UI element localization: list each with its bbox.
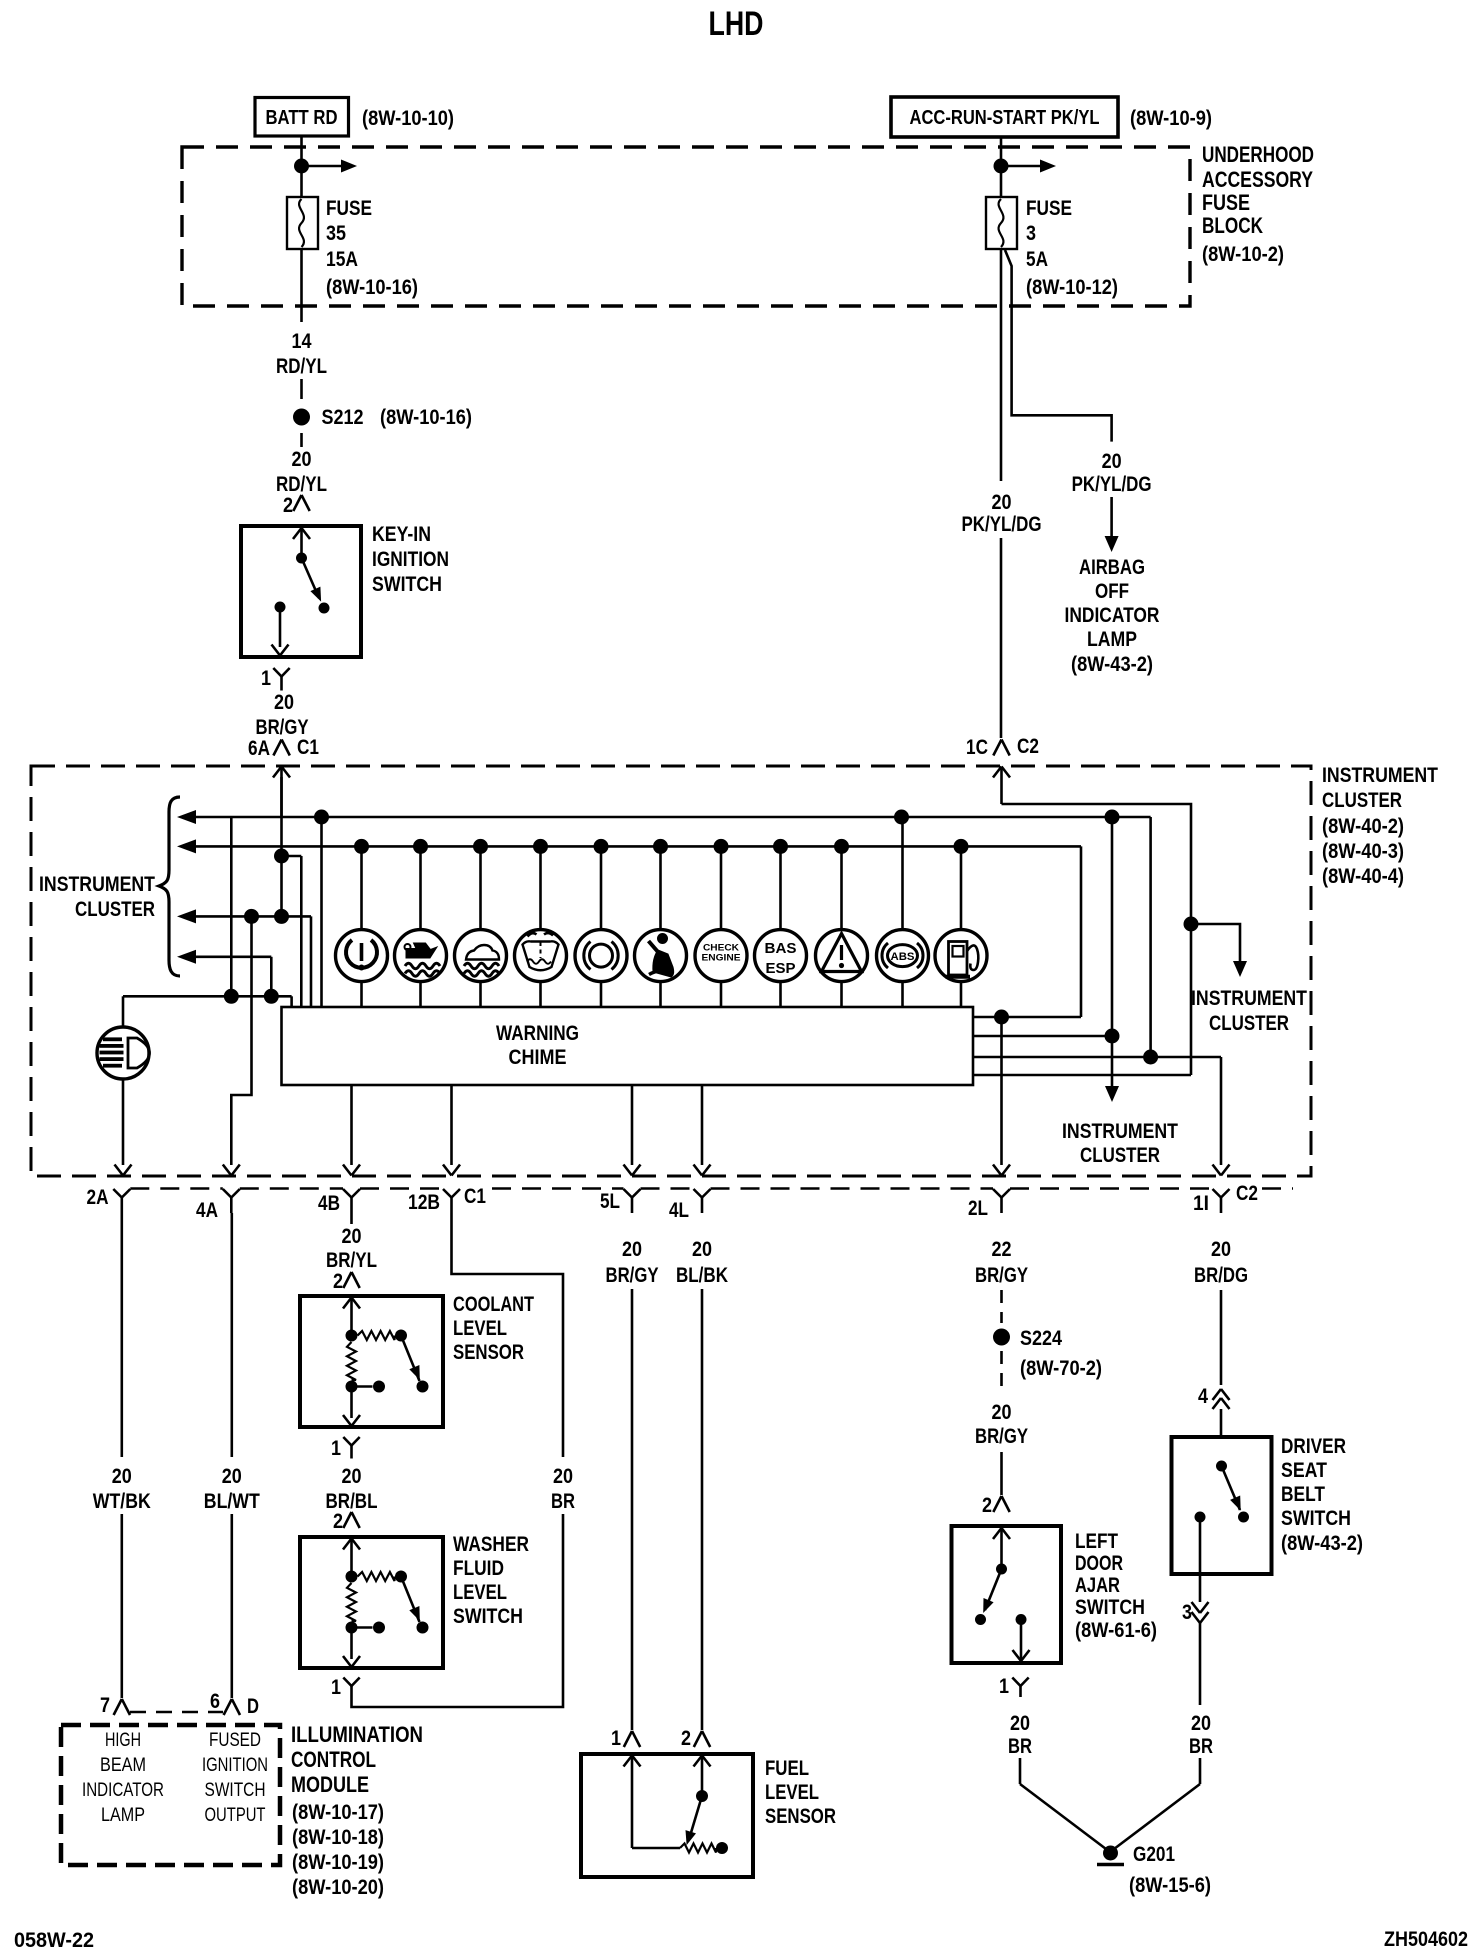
svg-text:WASHER: WASHER xyxy=(453,1533,529,1556)
svg-text:WARNING: WARNING xyxy=(496,1022,579,1045)
svg-text:BR/YL: BR/YL xyxy=(326,1249,377,1272)
svg-text:LAMP: LAMP xyxy=(101,1805,145,1826)
svg-text:(8W-70-2): (8W-70-2) xyxy=(1020,1357,1102,1380)
svg-text:1: 1 xyxy=(331,1676,341,1699)
svg-text:(8W-40-2): (8W-40-2) xyxy=(1322,815,1404,838)
svg-text:20: 20 xyxy=(692,1238,712,1261)
svg-text:LHD: LHD xyxy=(709,5,764,43)
svg-text:S224: S224 xyxy=(1020,1327,1062,1350)
svg-text:OUTPUT: OUTPUT xyxy=(205,1805,266,1826)
svg-text:20: 20 xyxy=(992,1401,1012,1424)
svg-text:20: 20 xyxy=(1191,1712,1211,1735)
svg-text:CLUSTER: CLUSTER xyxy=(1209,1012,1289,1035)
svg-text:1I: 1I xyxy=(1193,1192,1209,1215)
svg-text:FUSE: FUSE xyxy=(1202,190,1250,215)
svg-text:2L: 2L xyxy=(968,1197,988,1220)
svg-text:(8W-61-6): (8W-61-6) xyxy=(1075,1619,1157,1642)
svg-text:ILLUMINATION: ILLUMINATION xyxy=(291,1722,423,1747)
svg-text:C2: C2 xyxy=(1017,735,1039,758)
svg-text:COOLANT: COOLANT xyxy=(453,1293,534,1316)
svg-text:BL/WT: BL/WT xyxy=(204,1490,260,1513)
svg-text:(8W-10-2): (8W-10-2) xyxy=(1202,243,1284,266)
svg-text:ABS: ABS xyxy=(891,951,915,963)
svg-text:S212: S212 xyxy=(322,406,364,429)
svg-text:MODULE: MODULE xyxy=(291,1772,369,1797)
svg-text:LEVEL: LEVEL xyxy=(453,1581,507,1604)
svg-text:FUSE: FUSE xyxy=(326,197,372,220)
svg-text:BR: BR xyxy=(1189,1735,1213,1758)
svg-text:4B: 4B xyxy=(318,1192,340,1215)
svg-text:RD/YL: RD/YL xyxy=(276,473,327,496)
svg-text:CLUSTER: CLUSTER xyxy=(75,898,155,921)
svg-text:BEAM: BEAM xyxy=(100,1755,146,1776)
svg-text:6: 6 xyxy=(210,1690,220,1713)
svg-text:INSTRUMENT: INSTRUMENT xyxy=(39,873,155,896)
svg-text:20: 20 xyxy=(553,1465,573,1488)
svg-text:15A: 15A xyxy=(326,248,358,271)
svg-text:(8W-10-20): (8W-10-20) xyxy=(292,1876,384,1899)
svg-text:FLUID: FLUID xyxy=(453,1557,504,1580)
svg-text:LEVEL: LEVEL xyxy=(453,1317,507,1340)
svg-text:INSTRUMENT: INSTRUMENT xyxy=(1191,987,1307,1010)
svg-text:SWITCH: SWITCH xyxy=(1281,1507,1351,1530)
svg-text:LAMP: LAMP xyxy=(1087,628,1137,651)
svg-text:14: 14 xyxy=(292,330,312,353)
svg-text:AIRBAG: AIRBAG xyxy=(1079,556,1145,579)
svg-text:INSTRUMENT: INSTRUMENT xyxy=(1062,1120,1178,1143)
svg-text:INDICATOR: INDICATOR xyxy=(82,1780,164,1801)
svg-text:20: 20 xyxy=(1102,450,1122,473)
svg-text:(8W-40-4): (8W-40-4) xyxy=(1322,865,1404,888)
svg-text:BLOCK: BLOCK xyxy=(1202,213,1263,238)
svg-text:BR: BR xyxy=(1008,1735,1032,1758)
svg-text:FUSE: FUSE xyxy=(1026,197,1072,220)
svg-text:FUSED: FUSED xyxy=(209,1730,261,1751)
svg-text:7: 7 xyxy=(100,1694,110,1717)
svg-text:4L: 4L xyxy=(669,1199,689,1222)
svg-text:(8W-10-17): (8W-10-17) xyxy=(292,1801,384,1824)
svg-text:CHIME: CHIME xyxy=(509,1046,567,1069)
svg-text:SWITCH: SWITCH xyxy=(1075,1596,1145,1619)
svg-text:BR/GY: BR/GY xyxy=(975,1425,1028,1448)
svg-text:20: 20 xyxy=(992,491,1012,514)
svg-text:1: 1 xyxy=(331,1437,341,1460)
svg-text:G201: G201 xyxy=(1133,1843,1175,1866)
svg-text:1C: 1C xyxy=(966,736,988,759)
svg-text:4A: 4A xyxy=(196,1199,218,1222)
svg-text:(8W-10-12): (8W-10-12) xyxy=(1026,276,1118,299)
svg-text:6A: 6A xyxy=(248,737,270,760)
svg-text:ZH504602: ZH504602 xyxy=(1384,1928,1468,1951)
svg-text:(8W-43-2): (8W-43-2) xyxy=(1071,653,1153,676)
svg-text:INSTRUMENT: INSTRUMENT xyxy=(1322,764,1438,787)
svg-text:SEAT: SEAT xyxy=(1281,1459,1327,1482)
svg-text:IGNITION: IGNITION xyxy=(372,548,449,571)
svg-text:SWITCH: SWITCH xyxy=(205,1780,266,1801)
svg-text:ENGINE: ENGINE xyxy=(702,953,741,964)
svg-text:20: 20 xyxy=(1211,1238,1231,1261)
svg-text:SENSOR: SENSOR xyxy=(765,1805,836,1828)
svg-text:C1: C1 xyxy=(464,1185,486,1208)
svg-text:BR/GY: BR/GY xyxy=(975,1264,1028,1287)
svg-text:UNDERHOOD: UNDERHOOD xyxy=(1202,142,1314,167)
svg-text:(8W-10-9): (8W-10-9) xyxy=(1130,107,1212,130)
svg-text:12B: 12B xyxy=(408,1191,440,1214)
svg-text:BELT: BELT xyxy=(1281,1483,1325,1506)
svg-text:ACCESSORY: ACCESSORY xyxy=(1202,167,1313,192)
svg-text:PK/YL/DG: PK/YL/DG xyxy=(962,513,1042,536)
svg-text:HIGH: HIGH xyxy=(105,1730,141,1751)
svg-text:1: 1 xyxy=(261,667,271,690)
svg-text:SWITCH: SWITCH xyxy=(453,1605,523,1628)
svg-text:2: 2 xyxy=(333,1510,343,1533)
svg-text:CLUSTER: CLUSTER xyxy=(1080,1144,1160,1167)
svg-text:1: 1 xyxy=(611,1727,621,1750)
svg-text:BR: BR xyxy=(551,1490,575,1513)
svg-text:20: 20 xyxy=(342,1465,362,1488)
svg-text:(8W-10-10): (8W-10-10) xyxy=(362,107,454,130)
svg-text:BL/BK: BL/BK xyxy=(676,1264,728,1287)
svg-text:(8W-43-2): (8W-43-2) xyxy=(1281,1532,1363,1555)
svg-text:CONTROL: CONTROL xyxy=(291,1747,376,1772)
svg-text:D: D xyxy=(247,1695,259,1718)
svg-text:5L: 5L xyxy=(600,1190,620,1213)
svg-text:LEFT: LEFT xyxy=(1075,1530,1118,1553)
svg-text:BATT RD: BATT RD xyxy=(266,107,338,129)
svg-text:KEY-IN: KEY-IN xyxy=(372,523,431,546)
svg-text:20: 20 xyxy=(274,691,294,714)
svg-text:INDICATOR: INDICATOR xyxy=(1065,604,1160,627)
svg-text:35: 35 xyxy=(326,222,346,245)
svg-text:(8W-40-3): (8W-40-3) xyxy=(1322,840,1404,863)
svg-text:2: 2 xyxy=(982,1494,992,1517)
svg-text:20: 20 xyxy=(622,1238,642,1261)
svg-text:BAS: BAS xyxy=(765,940,797,957)
svg-text:(8W-10-16): (8W-10-16) xyxy=(380,406,472,429)
svg-text:(8W-15-6): (8W-15-6) xyxy=(1129,1874,1211,1897)
svg-text:3: 3 xyxy=(1026,222,1036,245)
svg-text:FUEL: FUEL xyxy=(765,1757,809,1780)
svg-text:PK/YL/DG: PK/YL/DG xyxy=(1072,473,1152,496)
svg-text:C1: C1 xyxy=(297,736,319,759)
svg-text:CLUSTER: CLUSTER xyxy=(1322,789,1402,812)
svg-text:22: 22 xyxy=(992,1238,1012,1261)
svg-text:DOOR: DOOR xyxy=(1075,1552,1123,1575)
svg-text:DRIVER: DRIVER xyxy=(1281,1435,1346,1458)
svg-text:2: 2 xyxy=(681,1727,691,1750)
svg-text:LEVEL: LEVEL xyxy=(765,1781,819,1804)
svg-text:(8W-10-18): (8W-10-18) xyxy=(292,1826,384,1849)
svg-text:C2: C2 xyxy=(1236,1182,1258,1205)
svg-text:ESP: ESP xyxy=(766,960,796,977)
svg-text:WT/BK: WT/BK xyxy=(93,1490,151,1513)
svg-text:20: 20 xyxy=(222,1465,242,1488)
svg-text:AJAR: AJAR xyxy=(1075,1574,1120,1597)
svg-text:ACC-RUN-START PK/YL: ACC-RUN-START PK/YL xyxy=(910,107,1100,129)
svg-text:(8W-10-16): (8W-10-16) xyxy=(326,276,418,299)
svg-text:BR/DG: BR/DG xyxy=(1194,1264,1248,1287)
svg-text:IGNITION: IGNITION xyxy=(202,1755,268,1776)
svg-text:2: 2 xyxy=(283,494,293,517)
svg-text:(8W-10-19): (8W-10-19) xyxy=(292,1851,384,1874)
svg-text:3: 3 xyxy=(1182,1601,1192,1624)
svg-text:5A: 5A xyxy=(1026,248,1048,271)
svg-text:058W-22: 058W-22 xyxy=(14,1929,94,1952)
svg-text:20: 20 xyxy=(112,1465,132,1488)
svg-text:SWITCH: SWITCH xyxy=(372,573,442,596)
svg-text:BR/GY: BR/GY xyxy=(606,1264,659,1287)
svg-text:20: 20 xyxy=(342,1225,362,1248)
svg-text:20: 20 xyxy=(1010,1712,1030,1735)
svg-text:SENSOR: SENSOR xyxy=(453,1341,524,1364)
svg-text:OFF: OFF xyxy=(1095,580,1129,603)
svg-text:1: 1 xyxy=(999,1675,1009,1698)
svg-text:2A: 2A xyxy=(87,1186,109,1209)
svg-text:2: 2 xyxy=(333,1270,343,1293)
svg-text:20: 20 xyxy=(292,448,312,471)
svg-text:RD/YL: RD/YL xyxy=(276,355,327,378)
svg-text:4: 4 xyxy=(1198,1385,1208,1408)
